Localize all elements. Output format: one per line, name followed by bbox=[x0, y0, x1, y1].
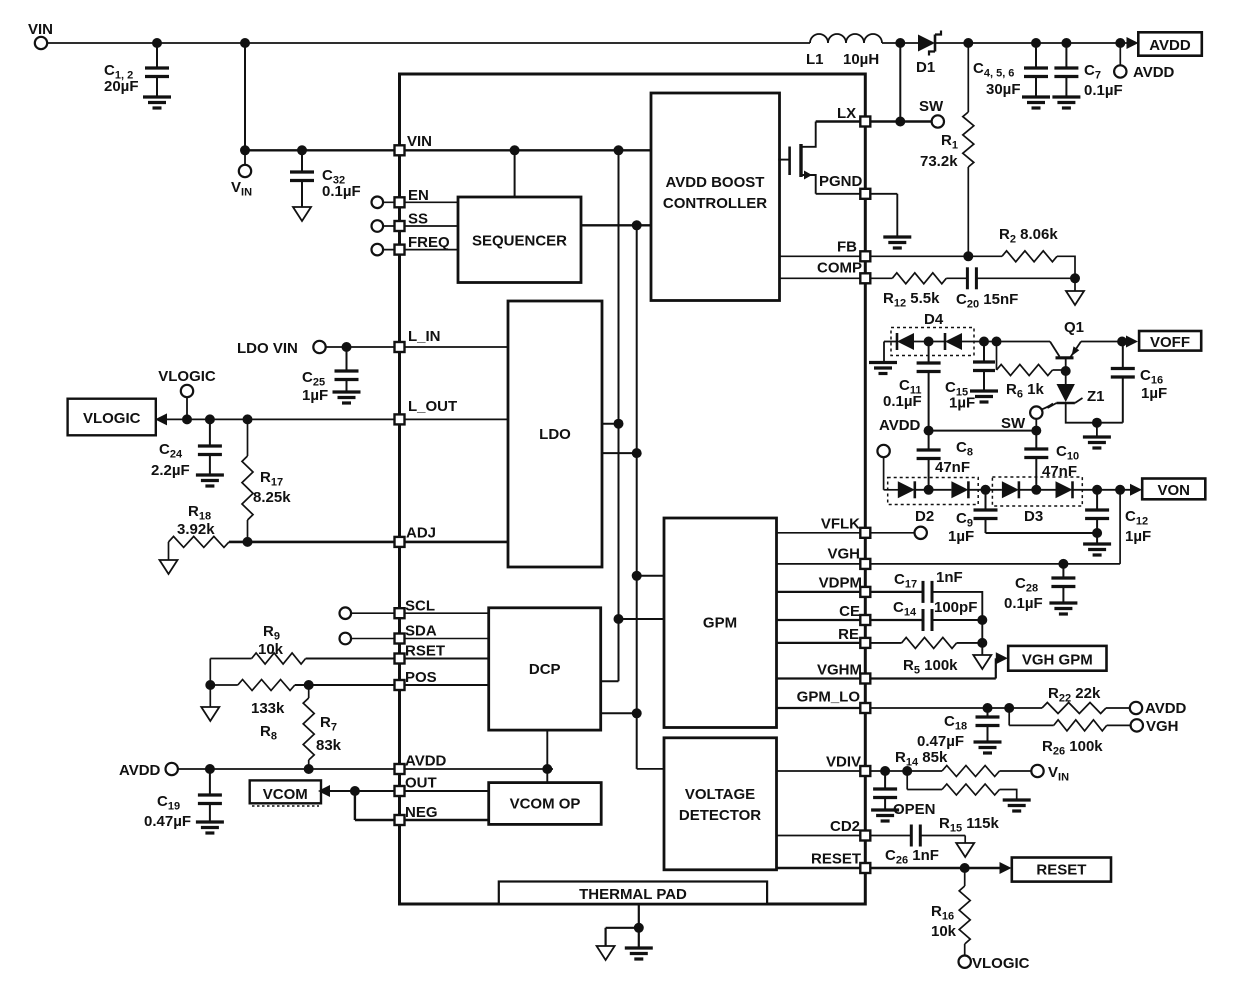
svg-text:D2: D2 bbox=[915, 508, 934, 525]
svg-text:VFLK: VFLK bbox=[821, 516, 860, 533]
svg-text:VGHM: VGHM bbox=[817, 662, 862, 679]
svg-text:SW: SW bbox=[919, 98, 944, 115]
svg-text:83k: 83k bbox=[316, 737, 342, 754]
svg-text:POS: POS bbox=[405, 669, 437, 686]
svg-text:R5 100k: R5 100k bbox=[903, 657, 958, 677]
svg-text:1nF: 1nF bbox=[936, 569, 963, 586]
svg-text:8.25k: 8.25k bbox=[253, 489, 291, 506]
svg-text:NEG: NEG bbox=[405, 804, 438, 821]
svg-text:AVDD: AVDD bbox=[879, 417, 921, 434]
svg-text:100pF: 100pF bbox=[934, 599, 977, 616]
svg-text:OUT: OUT bbox=[405, 775, 437, 792]
svg-text:RESET: RESET bbox=[1036, 862, 1086, 879]
svg-text:R15 115k: R15 115k bbox=[939, 815, 999, 835]
svg-text:D3: D3 bbox=[1024, 508, 1043, 525]
svg-text:OPEN: OPEN bbox=[893, 801, 936, 818]
svg-text:30µF: 30µF bbox=[986, 81, 1021, 98]
svg-text:D4: D4 bbox=[924, 311, 944, 328]
svg-text:47nF: 47nF bbox=[935, 459, 970, 476]
svg-text:R12 5.5k: R12 5.5k bbox=[883, 290, 940, 310]
svg-text:SCL: SCL bbox=[405, 598, 435, 615]
svg-text:VIN: VIN bbox=[407, 133, 432, 150]
svg-text:VDPM: VDPM bbox=[819, 575, 862, 592]
svg-text:0.1µF: 0.1µF bbox=[1004, 595, 1043, 612]
svg-text:3.92k: 3.92k bbox=[177, 521, 215, 538]
svg-text:0.1µF: 0.1µF bbox=[322, 183, 361, 200]
svg-text:C26 1nF: C26 1nF bbox=[885, 847, 939, 867]
svg-text:CONTROLLER: CONTROLLER bbox=[663, 195, 767, 212]
svg-text:R22 22k: R22 22k bbox=[1048, 685, 1101, 705]
svg-text:VGH: VGH bbox=[827, 546, 860, 563]
svg-text:COMP: COMP bbox=[817, 260, 862, 277]
svg-text:FB: FB bbox=[837, 239, 857, 256]
svg-text:RE: RE bbox=[838, 626, 859, 643]
svg-text:R2 8.06k: R2 8.06k bbox=[999, 226, 1058, 246]
svg-text:73.2k: 73.2k bbox=[920, 153, 958, 170]
svg-text:AVDD: AVDD bbox=[119, 762, 161, 779]
svg-text:10µH: 10µH bbox=[843, 51, 879, 68]
svg-text:AVDD: AVDD bbox=[1149, 37, 1191, 54]
svg-text:ADJ: ADJ bbox=[406, 525, 436, 542]
svg-text:L1: L1 bbox=[806, 51, 824, 68]
svg-text:1µF: 1µF bbox=[948, 528, 974, 545]
svg-text:AVDD: AVDD bbox=[405, 753, 447, 770]
svg-text:VCOM OP: VCOM OP bbox=[510, 796, 581, 813]
svg-text:DCP: DCP bbox=[529, 661, 561, 678]
svg-text:0.47µF: 0.47µF bbox=[917, 733, 964, 750]
svg-text:GPM_LO: GPM_LO bbox=[797, 689, 861, 706]
svg-text:133k: 133k bbox=[251, 700, 285, 717]
svg-text:SS: SS bbox=[408, 211, 428, 228]
svg-text:DETECTOR: DETECTOR bbox=[679, 807, 761, 824]
svg-text:AVDD: AVDD bbox=[1133, 64, 1175, 81]
svg-text:CD2: CD2 bbox=[830, 818, 860, 835]
svg-text:VCOM: VCOM bbox=[263, 786, 308, 803]
svg-text:VGH: VGH bbox=[1146, 718, 1179, 735]
svg-text:GPM: GPM bbox=[703, 615, 737, 632]
svg-text:1µF: 1µF bbox=[302, 387, 328, 404]
svg-text:VLOGIC: VLOGIC bbox=[972, 955, 1030, 972]
svg-text:D1: D1 bbox=[916, 59, 935, 76]
svg-text:C20 15nF: C20 15nF bbox=[956, 291, 1018, 311]
svg-text:R14 85k: R14 85k bbox=[895, 749, 948, 769]
svg-text:RSET: RSET bbox=[405, 643, 445, 660]
svg-text:SW: SW bbox=[1001, 415, 1026, 432]
svg-text:0.1µF: 0.1µF bbox=[883, 393, 922, 410]
svg-text:AVDD BOOST: AVDD BOOST bbox=[666, 174, 765, 191]
svg-text:RESET: RESET bbox=[811, 851, 861, 868]
svg-text:LDO VIN: LDO VIN bbox=[237, 340, 298, 357]
svg-text:0.47µF: 0.47µF bbox=[144, 813, 191, 830]
svg-text:SDA: SDA bbox=[405, 623, 437, 640]
svg-text:0.1µF: 0.1µF bbox=[1084, 82, 1123, 99]
svg-text:L_IN: L_IN bbox=[408, 328, 441, 345]
svg-text:20µF: 20µF bbox=[104, 78, 139, 95]
svg-text:VIN: VIN bbox=[28, 21, 53, 38]
svg-text:VLOGIC: VLOGIC bbox=[83, 410, 141, 427]
svg-text:CE: CE bbox=[839, 603, 860, 620]
svg-text:AVDD: AVDD bbox=[1145, 700, 1187, 717]
svg-text:L_OUT: L_OUT bbox=[408, 398, 457, 415]
svg-text:10k: 10k bbox=[258, 641, 284, 658]
svg-text:1µF: 1µF bbox=[1125, 528, 1151, 545]
svg-text:1µF: 1µF bbox=[949, 395, 975, 412]
svg-text:PGND: PGND bbox=[819, 173, 863, 190]
svg-text:VLOGIC: VLOGIC bbox=[158, 368, 216, 385]
svg-text:EN: EN bbox=[408, 187, 429, 204]
svg-text:VON: VON bbox=[1157, 482, 1190, 499]
svg-text:THERMAL PAD: THERMAL PAD bbox=[579, 886, 687, 903]
svg-text:R6 1k: R6 1k bbox=[1006, 381, 1044, 401]
svg-text:Z1: Z1 bbox=[1087, 388, 1105, 405]
svg-text:FREQ: FREQ bbox=[408, 234, 450, 251]
svg-text:SEQUENCER: SEQUENCER bbox=[472, 233, 567, 250]
svg-text:LX: LX bbox=[837, 105, 856, 122]
svg-text:Q1: Q1 bbox=[1064, 319, 1084, 336]
svg-text:2.2µF: 2.2µF bbox=[151, 462, 190, 479]
svg-text:VOFF: VOFF bbox=[1150, 334, 1190, 351]
svg-text:10k: 10k bbox=[931, 923, 957, 940]
svg-text:1µF: 1µF bbox=[1141, 385, 1167, 402]
svg-text:R26 100k: R26 100k bbox=[1042, 738, 1103, 758]
svg-text:VOLTAGE: VOLTAGE bbox=[685, 786, 755, 803]
svg-text:VDIV: VDIV bbox=[826, 754, 861, 771]
svg-text:VGH GPM: VGH GPM bbox=[1022, 652, 1093, 669]
svg-text:LDO: LDO bbox=[539, 426, 571, 443]
